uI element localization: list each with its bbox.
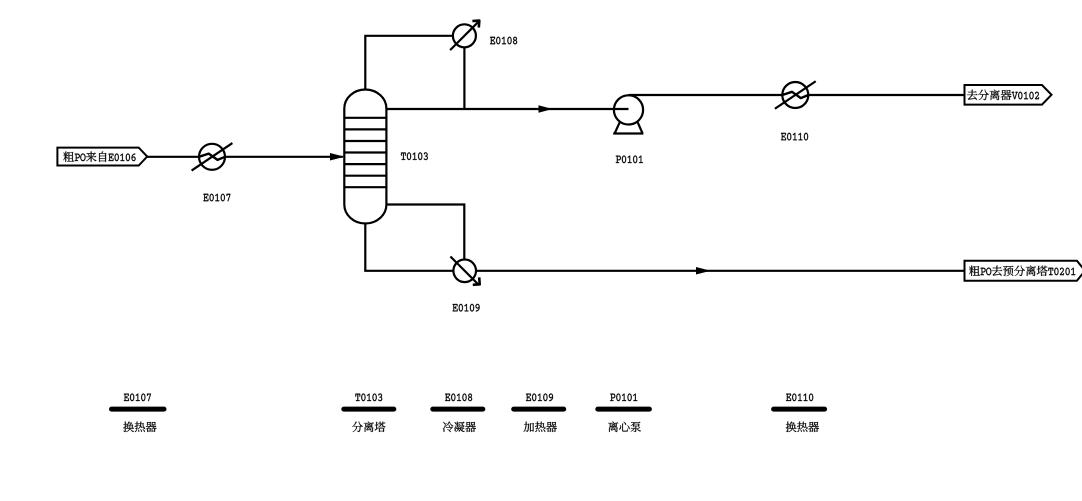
- legend name 换热器: [786, 422, 819, 432]
- pump P0101: [613, 95, 643, 133]
- legend name 分离塔: [352, 422, 385, 432]
- wire column top to condenser E0108: [365, 36, 453, 90]
- wire column side draw to heater E0109: [386, 205, 464, 260]
- legend bar T0103: [344, 407, 394, 412]
- wire top product line to pump: [386, 108, 628, 110]
- arrowhead bottoms line: [696, 267, 711, 275]
- stream flag OUT: 粗PO去预分离塔T0201: [965, 261, 1082, 281]
- legend tag E0108: [445, 394, 472, 402]
- arrowhead feed into T0103: [330, 153, 345, 161]
- legend tag E0109: [526, 394, 553, 402]
- label E0107: [203, 194, 230, 202]
- condenser E0108: [450, 21, 479, 50]
- wire column bottoms to flag T0201: [365, 224, 964, 271]
- heat exchanger E0110: [775, 81, 816, 109]
- label P0101: [616, 156, 643, 164]
- column T0103: [344, 90, 386, 224]
- legend name 冷凝器: [443, 422, 476, 433]
- label E0108: [490, 37, 517, 45]
- legend tag E0107: [124, 394, 151, 402]
- legend tag T0103: [355, 394, 382, 402]
- label E0110: [781, 133, 808, 141]
- wire feed line to column: [147, 156, 343, 158]
- legend name 加热器: [524, 422, 557, 432]
- arrowhead top product line: [539, 105, 553, 113]
- wire condenser down to product line: [463, 47, 465, 109]
- legend bar E0110: [774, 407, 825, 412]
- legend tag E0110: [786, 394, 813, 402]
- legend tag P0101: [610, 394, 637, 402]
- legend name 离心泵: [608, 422, 641, 432]
- legend bar E0107: [112, 407, 165, 412]
- stream flag OUT: 去分离器V0102: [965, 85, 1052, 105]
- label T0103: [401, 152, 428, 160]
- wire pump discharge to flag V0102: [629, 94, 965, 96]
- label E0109: [453, 304, 480, 312]
- legend bar P0101: [598, 407, 650, 412]
- legend bar E0109: [514, 407, 564, 412]
- stream flag IN: 粗PO来自E0106: [57, 148, 147, 166]
- heat exchanger E0107: [192, 143, 233, 171]
- legend name 换热器: [123, 422, 156, 432]
- heater E0109: [450, 257, 479, 285]
- legend bar E0108: [433, 407, 483, 412]
